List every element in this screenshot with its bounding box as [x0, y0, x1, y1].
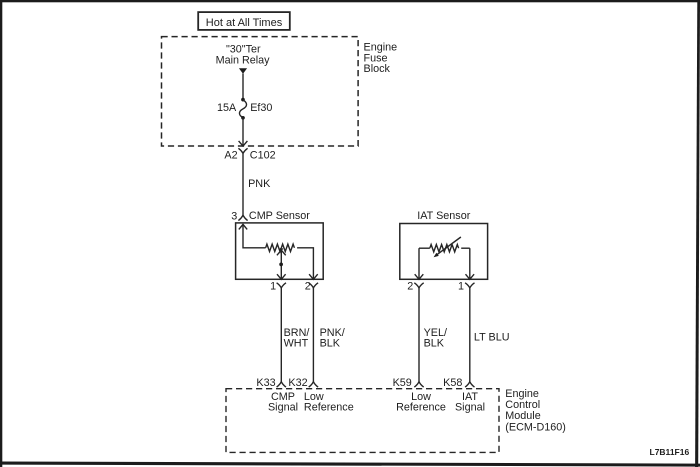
CMP sensor pin 3 connector: [238, 215, 247, 220]
CMP wiper arrow: [277, 248, 286, 255]
wire color label BRN/WHT: [284, 327, 310, 350]
svg-text:Module: Module: [505, 410, 540, 422]
svg-text:IAT Sensor: IAT Sensor: [417, 210, 470, 222]
svg-text:(ECM-D160): (ECM-D160): [505, 422, 566, 434]
svg-text:15A: 15A: [217, 102, 237, 114]
svg-text:K58: K58: [443, 377, 462, 389]
svg-text:3: 3: [231, 211, 237, 223]
svg-text:LT BLU: LT BLU: [474, 332, 510, 344]
svg-text:WHT: WHT: [284, 338, 309, 350]
svg-text:K59: K59: [393, 377, 412, 389]
svg-text:1: 1: [458, 281, 464, 293]
svg-text:K32: K32: [288, 377, 307, 389]
CMP internal wire: [243, 224, 266, 247]
CMP right branch wire: [297, 248, 313, 279]
K33 signal name: [268, 391, 298, 414]
CMP pin 1 connector: [277, 283, 286, 288]
K59 signal name: [396, 391, 446, 414]
wire BRN/WHT: [280, 288, 282, 382]
ECM pin K33 connector: [277, 382, 286, 387]
svg-text:BLK: BLK: [320, 338, 341, 350]
connector C102 terminal A2: [238, 148, 247, 153]
IAT right branch wire: [469, 248, 471, 279]
Engine Fuse Block label: [364, 42, 398, 75]
svg-text:PNK: PNK: [248, 178, 271, 190]
IAT sensor box: [400, 224, 488, 280]
svg-text:2: 2: [305, 281, 311, 293]
svg-text:CMP Sensor: CMP Sensor: [249, 210, 310, 222]
CMP pickup coil resistor: [266, 244, 295, 251]
relay output terminal triangle: [239, 68, 247, 74]
ECM pin K59 connector: [414, 382, 423, 387]
wire LT BLU: [469, 288, 471, 382]
svg-text:Hot at All Times: Hot at All Times: [206, 17, 283, 29]
IAT pin 2 connector: [414, 283, 423, 288]
ECM pin K58 connector: [465, 382, 474, 387]
thermistor diagonal arrow: [434, 237, 461, 257]
IAT thermistor resistor: [419, 245, 470, 252]
CMP pin 2 connector: [309, 283, 318, 288]
wire PNK/BLK: [312, 288, 314, 382]
IAT pin 1 connector: [465, 283, 474, 288]
svg-text:L7B11F16: L7B11F16: [650, 447, 690, 457]
svg-text:Reference: Reference: [304, 402, 354, 414]
arrow to IAT pin 2: [415, 274, 424, 279]
svg-text:A2: A2: [224, 150, 237, 162]
wire YEL/BLK: [418, 288, 420, 382]
svg-text:Signal: Signal: [268, 402, 298, 414]
arrow to pin 2: [309, 274, 318, 279]
K58 signal name: [455, 391, 485, 414]
wire fuse to connector C102: [242, 118, 244, 146]
node Hot at All Times: [198, 12, 290, 30]
arrow into C102: [239, 141, 248, 146]
Engine Control Module label: [505, 388, 566, 433]
svg-text:Reference: Reference: [396, 402, 446, 414]
svg-text:Signal: Signal: [455, 402, 485, 414]
ECM box: [226, 389, 499, 453]
K32 signal name: [304, 391, 354, 414]
CMP internal up arrow: [239, 224, 247, 229]
svg-text:Block: Block: [364, 63, 391, 75]
svg-text:Ef30: Ef30: [250, 102, 272, 114]
CMP sensor box: [236, 223, 324, 279]
arrow to pin 1: [277, 274, 286, 279]
svg-text:K33: K33: [256, 377, 275, 389]
Engine Fuse Block box: [162, 37, 359, 146]
svg-text:C102: C102: [250, 150, 276, 162]
CMP wiper wire: [280, 251, 282, 279]
wire PNK: [242, 153, 244, 215]
svg-text:Main Relay: Main Relay: [216, 55, 271, 67]
fuse Ef30 15A: [239, 98, 246, 120]
wire color label PNK/BLK: [320, 327, 345, 350]
svg-text:2: 2: [407, 281, 413, 293]
junction dot: [279, 263, 283, 267]
relay K "30" terminal label: [216, 44, 271, 67]
ECM pin K32 connector: [309, 382, 318, 387]
wire color label YEL/BLK: [424, 327, 447, 350]
svg-text:1: 1: [270, 281, 276, 293]
IAT left branch wire: [418, 248, 420, 279]
wire relay to fuse: [242, 74, 244, 100]
arrow to IAT pin 1: [466, 274, 475, 279]
svg-text:BLK: BLK: [424, 338, 445, 350]
